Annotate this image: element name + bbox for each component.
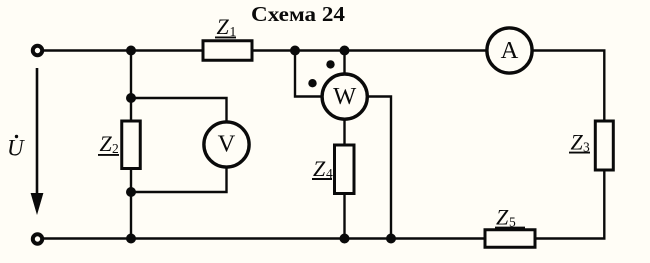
wire voltmeter branch bottom	[131, 167, 227, 192]
terminal bottom-left	[33, 234, 42, 243]
wattmeter polarity dot upper	[326, 60, 334, 68]
svg-text:Z: Z	[217, 14, 230, 39]
svg-text:Z: Z	[313, 156, 326, 181]
voltmeter V	[204, 122, 249, 167]
wire wattmeter to Z4 to bottom bus	[343, 119, 345, 239]
svg-text:U: U	[7, 136, 25, 161]
node voltmeter top	[126, 93, 136, 103]
wire wattmeter right to bottom bus	[367, 97, 391, 239]
wire left branch Z2	[130, 51, 132, 239]
svg-text:Z: Z	[571, 130, 584, 155]
wire top bus	[42, 49, 606, 51]
node top-left branch	[126, 46, 136, 56]
label Z3	[569, 130, 590, 155]
svg-text:Z: Z	[100, 131, 113, 156]
label Z1	[215, 14, 236, 39]
svg-text:V: V	[218, 131, 236, 158]
wire voltmeter branch top	[131, 98, 227, 122]
node wattmeter right	[340, 46, 350, 56]
resistor Z2	[122, 121, 141, 169]
svg-text:Схема 24: Схема 24	[251, 2, 345, 26]
node bottom-left branch	[126, 234, 136, 244]
resistor Z4	[335, 145, 355, 194]
wire right bus	[603, 51, 605, 239]
label Z5	[495, 205, 525, 230]
source arrow U	[31, 68, 44, 215]
node wattmeter left	[290, 46, 300, 56]
label Z2	[98, 131, 119, 156]
resistor Z5	[485, 230, 535, 248]
wire bottom bus	[42, 237, 606, 239]
terminal top-left	[33, 46, 42, 55]
node voltmeter bottom	[126, 187, 136, 197]
wire wattmeter left feed	[295, 51, 322, 97]
wattmeter W	[322, 74, 367, 119]
svg-text:W: W	[333, 83, 357, 110]
ammeter A	[487, 28, 532, 73]
svg-text:2: 2	[112, 141, 119, 156]
wattmeter polarity dot lower	[308, 79, 316, 87]
svg-text:Z: Z	[496, 205, 509, 230]
node Z4 bottom	[340, 234, 350, 244]
node wattmeter return bottom	[386, 234, 396, 244]
label U dot	[7, 135, 25, 161]
label Z4	[312, 156, 333, 181]
wire wattmeter top feed	[343, 51, 345, 75]
svg-text:A: A	[501, 37, 519, 64]
resistor Z1	[203, 41, 252, 61]
resistor Z3	[595, 121, 613, 170]
